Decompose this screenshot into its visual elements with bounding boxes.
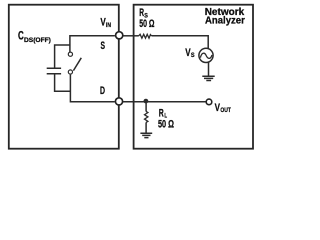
svg-text:50 Ω: 50 Ω xyxy=(158,118,174,130)
DUT box outline xyxy=(9,5,119,149)
wire switch to D node xyxy=(70,75,114,102)
resistor R_S zigzag xyxy=(139,34,152,38)
resistor R_L zigzag xyxy=(145,111,148,122)
wire junction to R_L xyxy=(145,101,147,111)
wire S node to R_S xyxy=(123,35,139,37)
wire R_S to V_S source xyxy=(152,36,209,49)
wire capacitor top branch xyxy=(55,45,71,68)
wire S node to switch xyxy=(70,36,115,52)
junction dot xyxy=(144,99,149,104)
wire capacitor bottom branch xyxy=(55,74,71,91)
svg-text:50 Ω: 50 Ω xyxy=(139,18,154,30)
node S terminal circle xyxy=(116,32,123,39)
svg-text:D: D xyxy=(100,85,105,97)
node V_OUT terminal circle xyxy=(206,99,212,105)
ground (V_S) xyxy=(202,76,214,80)
wire R_L to ground xyxy=(145,122,147,132)
node D terminal circle xyxy=(115,98,122,105)
wire V_S to ground xyxy=(208,62,210,76)
svg-text:Analyzer: Analyzer xyxy=(205,16,245,27)
svg-text:DS(OFF): DS(OFF) xyxy=(24,37,51,44)
source V_S circle xyxy=(199,48,213,62)
svg-text:OUT: OUT xyxy=(220,107,231,114)
svg-text:IN: IN xyxy=(106,22,111,29)
ground (R_L) xyxy=(140,133,152,137)
capacitor C_DS(OFF) plates xyxy=(47,68,61,74)
switch lever xyxy=(73,58,81,71)
wire D node to V_OUT xyxy=(123,101,206,103)
switch pole S (top contact circle) xyxy=(68,52,72,56)
svg-text:S: S xyxy=(191,52,195,59)
Network Analyzer box outline xyxy=(134,5,253,149)
switch throw D (bottom contact circle) xyxy=(68,70,72,74)
svg-text:S: S xyxy=(101,40,106,52)
source V_S sine wave xyxy=(200,53,212,58)
